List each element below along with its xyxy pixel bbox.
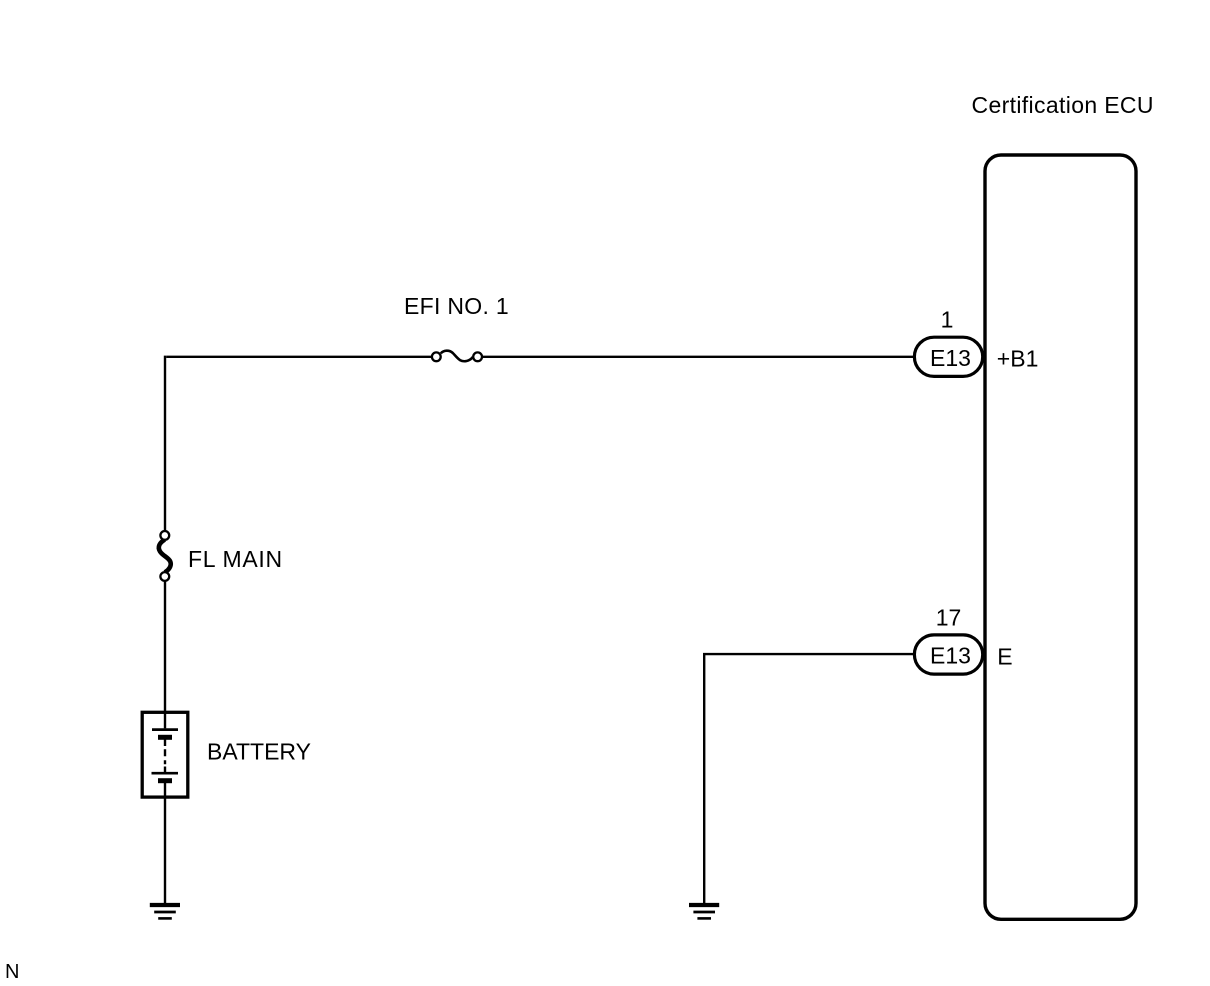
wire middle vertical + horizontal (E to ground) — [704, 654, 913, 903]
svg-text:1: 1 — [941, 307, 954, 333]
svg-text:17: 17 — [936, 605, 962, 631]
ground left (battery ground) — [150, 905, 180, 918]
fusible link FL MAIN — [159, 531, 171, 581]
svg-text:E13: E13 — [930, 345, 971, 371]
svg-text:E13: E13 — [930, 643, 971, 669]
ground middle (ECU E ground) — [689, 905, 719, 918]
connector oval E13 pin 1 — [914, 337, 982, 376]
svg-text:N: N — [5, 961, 19, 983]
battery plate short thick top — [158, 735, 172, 740]
wire left vertical (corner to battery) — [164, 356, 166, 729]
svg-text:Certification ECU: Certification ECU — [972, 92, 1154, 118]
wire main horizontal (battery to +B1) — [166, 356, 914, 358]
svg-text:E: E — [997, 643, 1012, 669]
battery plate short thick bottom — [158, 778, 172, 783]
connector oval E13 pin 17 — [914, 635, 982, 674]
battery dashed cell link — [164, 749, 166, 764]
wire battery to ground — [164, 782, 166, 904]
svg-text:+B1: +B1 — [997, 345, 1039, 371]
battery mid stem top — [164, 737, 166, 746]
svg-text:BATTERY: BATTERY — [207, 739, 311, 765]
svg-text:EFI NO. 1: EFI NO. 1 — [404, 293, 509, 319]
battery plate long top — [152, 728, 178, 731]
ECU box E13 — [985, 155, 1136, 919]
battery box — [142, 712, 188, 797]
fuse EFI NO. 1 — [432, 351, 482, 362]
svg-text:FL MAIN: FL MAIN — [188, 546, 283, 572]
battery mid stem bottom — [164, 767, 166, 774]
battery plate long bottom — [152, 772, 179, 775]
